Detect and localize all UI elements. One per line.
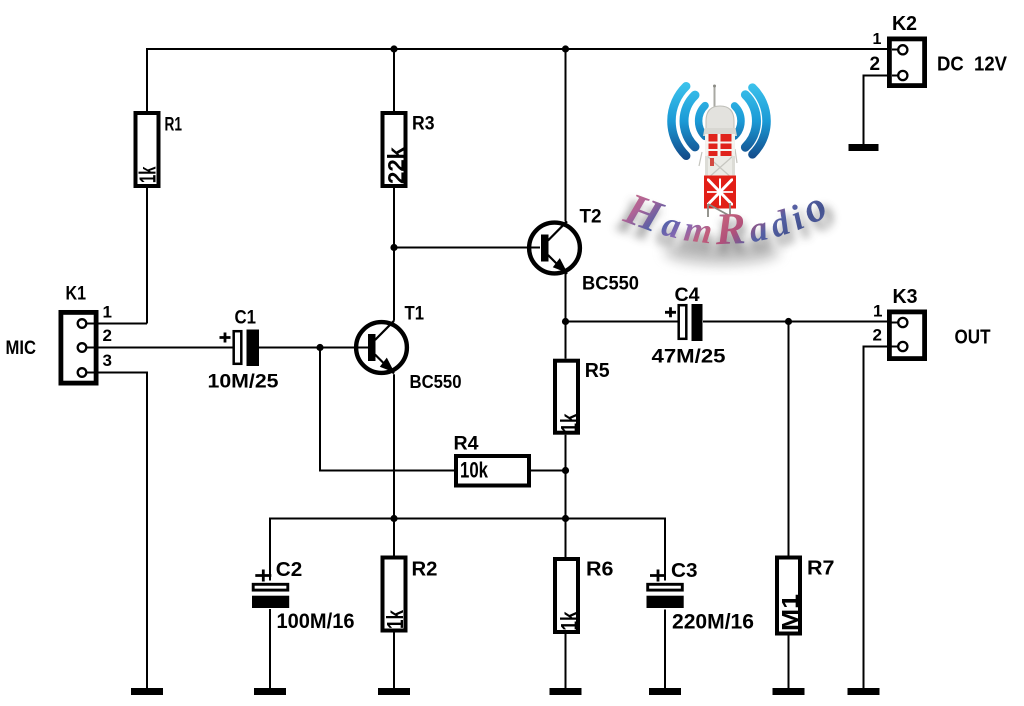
svg-text:R6: R6	[586, 559, 614, 581]
svg-text:2: 2	[103, 326, 112, 345]
svg-text:MIC: MIC	[6, 338, 37, 359]
svg-text:100M/16: 100M/16	[277, 610, 355, 633]
svg-text:1: 1	[873, 31, 882, 48]
svg-text:BC550: BC550	[410, 372, 462, 392]
svg-text:C2: C2	[276, 559, 303, 581]
svg-text:1k: 1k	[556, 413, 582, 432]
svg-text:2: 2	[870, 54, 881, 75]
svg-text:R7: R7	[807, 558, 835, 580]
svg-text:10k: 10k	[460, 458, 489, 483]
svg-text:OUT: OUT	[955, 327, 991, 349]
svg-text:T1: T1	[405, 304, 425, 325]
svg-text:C3: C3	[671, 560, 698, 582]
svg-text:R4: R4	[454, 434, 479, 455]
svg-text:1k: 1k	[135, 166, 161, 183]
svg-text:K2: K2	[892, 13, 917, 35]
svg-text:1: 1	[873, 302, 882, 321]
svg-text:1k: 1k	[556, 611, 582, 630]
svg-text:C1: C1	[235, 308, 257, 329]
svg-text:M1: M1	[777, 594, 803, 631]
svg-text:R3: R3	[412, 114, 435, 135]
svg-text:T2: T2	[580, 207, 602, 228]
svg-text:DC 12V: DC 12V	[937, 54, 1008, 76]
svg-text:C4: C4	[675, 285, 700, 306]
svg-text:10M/25: 10M/25	[208, 372, 279, 393]
svg-text:2: 2	[873, 326, 882, 345]
svg-text:220M/16: 220M/16	[672, 611, 754, 634]
svg-text:1: 1	[103, 303, 112, 322]
svg-text:47M/25: 47M/25	[652, 347, 727, 368]
svg-text:K3: K3	[893, 286, 918, 308]
svg-text:R1: R1	[165, 115, 183, 136]
svg-text:1k: 1k	[382, 610, 408, 629]
svg-text:R2: R2	[412, 559, 438, 581]
svg-text:K1: K1	[66, 284, 87, 305]
svg-text:R5: R5	[585, 360, 610, 382]
svg-text:BC550: BC550	[582, 274, 639, 295]
svg-text:3: 3	[103, 351, 112, 370]
svg-text:22k: 22k	[383, 147, 409, 184]
